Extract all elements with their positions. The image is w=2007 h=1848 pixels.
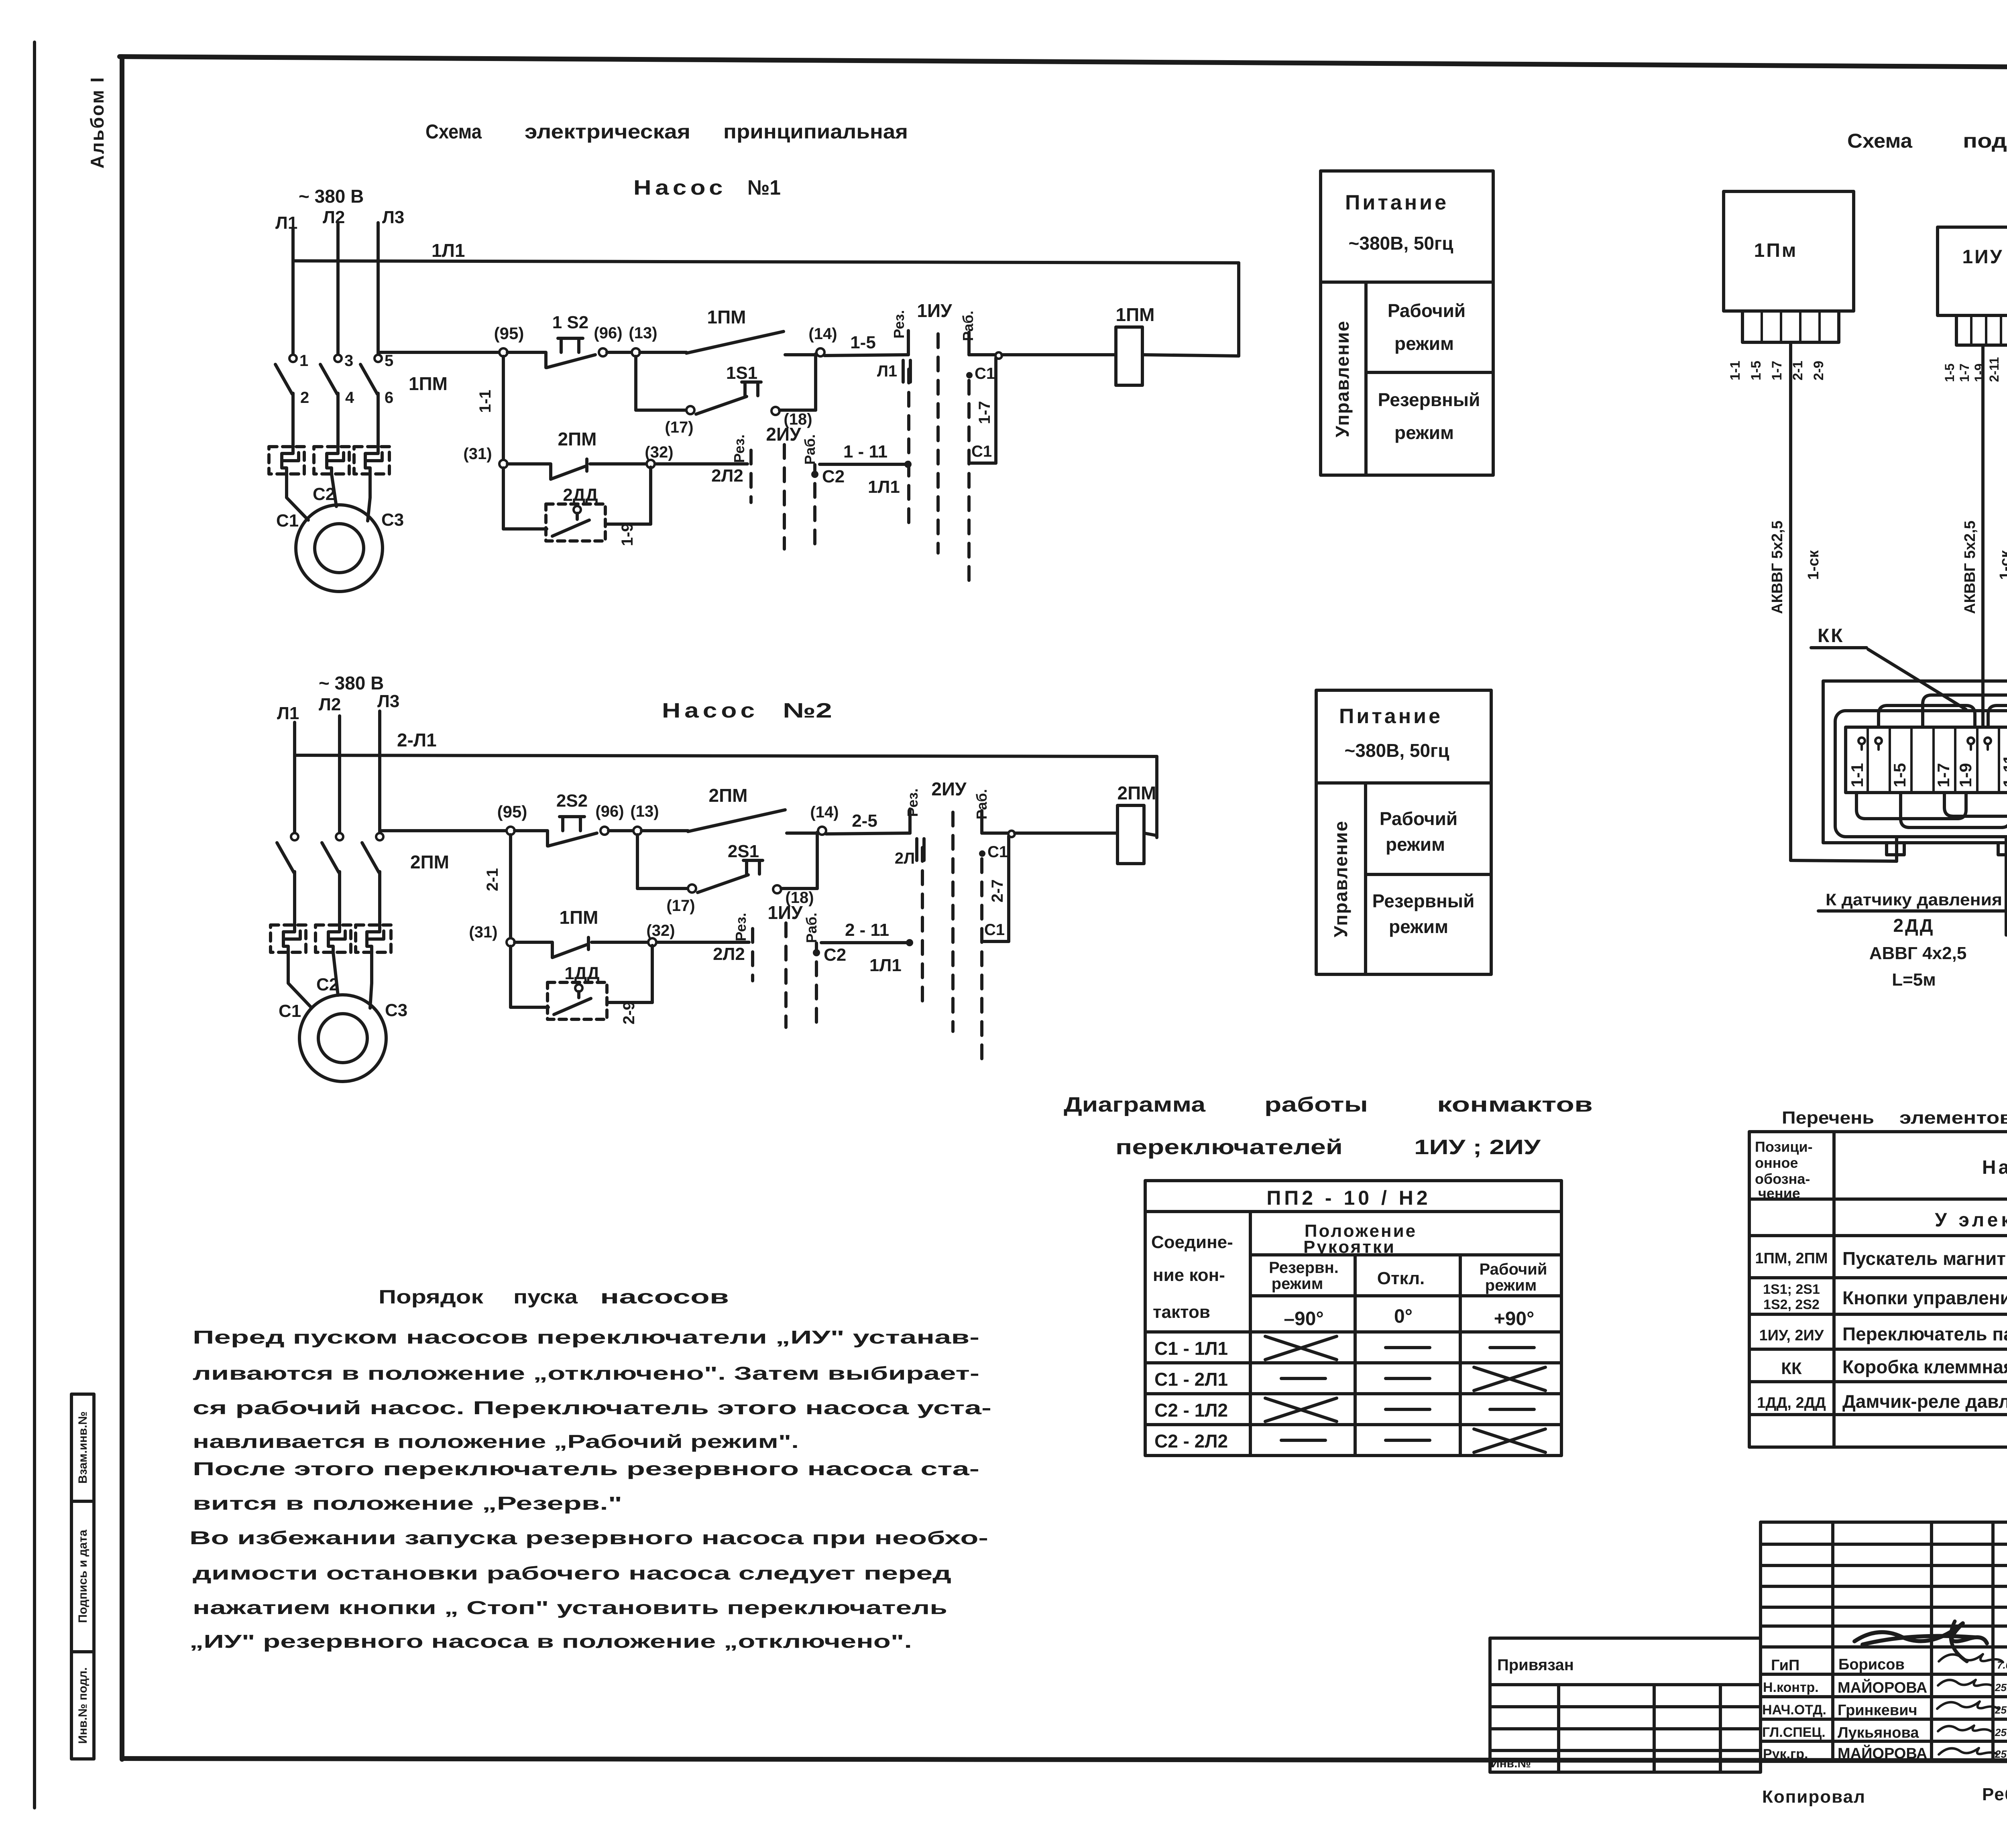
svg-text:1ПМ, 2ПМ: 1ПМ, 2ПМ bbox=[1755, 1250, 1828, 1267]
svg-text:1-1: 1-1 bbox=[1728, 361, 1743, 380]
svg-text:1-5: 1-5 bbox=[1942, 364, 1957, 382]
svg-text:чение: чение bbox=[1758, 1185, 1800, 1202]
svg-text:навливается в положение „Ра: навливается в положение „Рабочий режим". bbox=[193, 1431, 799, 1452]
svg-text:Перечень: Перечень bbox=[1782, 1108, 1874, 1128]
svg-text:1ИУ: 1ИУ bbox=[917, 300, 953, 321]
svg-text:2-Л1: 2-Л1 bbox=[397, 730, 437, 750]
svg-text:конмактов: конмактов bbox=[1437, 1093, 1593, 1116]
svg-text:С1: С1 bbox=[984, 921, 1005, 939]
svg-text:1ПМ: 1ПМ bbox=[1116, 304, 1155, 325]
svg-text:режим: режим bbox=[1386, 834, 1445, 855]
svg-text:Раб.: Раб. bbox=[802, 434, 818, 465]
svg-text:0°: 0° bbox=[1394, 1306, 1413, 1327]
svg-text:Инв.№ подл.: Инв.№ подл. bbox=[76, 1667, 90, 1744]
svg-text:Диаграмма: Диаграмма bbox=[1064, 1093, 1206, 1116]
svg-text:2 - 11: 2 - 11 bbox=[845, 920, 889, 940]
svg-text:Рез.: Рез. bbox=[733, 913, 749, 941]
svg-text:ся рабочий насос. Переключа: ся рабочий насос. Переключатель этого на… bbox=[193, 1397, 991, 1418]
svg-text:3: 3 bbox=[344, 352, 353, 370]
svg-text:тактов: тактов bbox=[1153, 1302, 1210, 1322]
svg-text:(95): (95) bbox=[497, 802, 527, 821]
svg-text:Резервн.: Резервн. bbox=[1269, 1259, 1339, 1277]
svg-text:пуска: пуска bbox=[513, 1287, 578, 1308]
svg-text:ГиП: ГиП bbox=[1771, 1657, 1799, 1674]
svg-text:1-1: 1-1 bbox=[476, 390, 494, 413]
svg-text:~ 380 В: ~ 380 В bbox=[319, 673, 384, 693]
svg-text:+90°: +90° bbox=[1494, 1308, 1535, 1330]
svg-text:К датчику давления: К датчику давления bbox=[1826, 890, 2002, 909]
svg-text:1ИУ, 2ИУ: 1ИУ, 2ИУ bbox=[1759, 1327, 1824, 1344]
svg-text:КК: КК bbox=[1818, 625, 1844, 646]
svg-text:режим: режим bbox=[1272, 1275, 1323, 1293]
svg-text:1 - 11: 1 - 11 bbox=[843, 442, 887, 461]
svg-text:насосов: насосов bbox=[600, 1287, 729, 1308]
svg-text:Рукоятки: Рукоятки bbox=[1303, 1237, 1396, 1257]
svg-text:1S2, 2S2: 1S2, 2S2 bbox=[1763, 1297, 1820, 1312]
svg-text:1-7: 1-7 bbox=[976, 401, 993, 424]
svg-text:Реброва: Реброва bbox=[1982, 1785, 2007, 1804]
svg-text:25.5.86: 25.5.86 bbox=[1995, 1704, 2007, 1716]
svg-text:(32): (32) bbox=[645, 443, 673, 461]
svg-text:L=5м: L=5м bbox=[1892, 970, 1936, 990]
svg-text:ние кон-: ние кон- bbox=[1153, 1265, 1225, 1285]
svg-text:Л1: Л1 bbox=[877, 362, 897, 380]
svg-text:1-ск: 1-ск bbox=[1997, 550, 2007, 580]
svg-text:АВВГ 4х2,5: АВВГ 4х2,5 bbox=[1869, 943, 1967, 963]
svg-text:АКВВГ 5х2,5: АКВВГ 5х2,5 bbox=[1769, 520, 1786, 614]
svg-text:(31): (31) bbox=[469, 923, 497, 941]
svg-text:После этого переключатель р: После этого переключатель резервного нас… bbox=[193, 1458, 979, 1479]
svg-text:Н.контр.: Н.контр. bbox=[1763, 1680, 1819, 1695]
svg-text:1 S2: 1 S2 bbox=[552, 313, 589, 332]
svg-text:2Л2: 2Л2 bbox=[713, 944, 745, 964]
svg-text:Коробка клеммная У615: Коробка клеммная У615 АУ2 bbox=[1842, 1356, 2007, 1377]
svg-text:1Л1: 1Л1 bbox=[432, 240, 465, 261]
svg-text:Л3: Л3 bbox=[382, 207, 404, 227]
svg-text:1-11: 1-11 bbox=[2000, 754, 2007, 787]
svg-text:25.03.86: 25.03.86 bbox=[1995, 1681, 2007, 1693]
svg-text:Гринкевич: Гринкевич bbox=[1838, 1702, 1917, 1719]
svg-text:1Л1: 1Л1 bbox=[869, 956, 902, 975]
svg-text:Резервный: Резервный bbox=[1378, 389, 1480, 410]
svg-text:1-1: 1-1 bbox=[1848, 763, 1867, 787]
svg-text:Питание: Питание bbox=[1345, 191, 1449, 214]
svg-text:Во избежании запуска резерв: Во избежании запуска резервного насоса п… bbox=[189, 1527, 988, 1548]
svg-text:Рез.: Рез. bbox=[891, 310, 907, 338]
svg-text:Рабочий: Рабочий bbox=[1480, 1260, 1547, 1278]
svg-text:Насос: Насос bbox=[662, 699, 759, 722]
svg-text:Перед пуском насосов перекл: Перед пуском насосов переключатели „ИУ" … bbox=[193, 1327, 979, 1348]
svg-text:Пускатель магнитный ПМЛ-12: Пускатель магнитный ПМЛ-122002 bbox=[1842, 1248, 2007, 1269]
svg-text:Кнопки управления: Кнопки управления bbox=[1842, 1287, 2007, 1308]
svg-text:АКВВГ 5х2,5: АКВВГ 5х2,5 bbox=[1962, 520, 1979, 614]
svg-text:переключателей: переключателей bbox=[1115, 1136, 1343, 1159]
svg-text:(13): (13) bbox=[630, 803, 659, 820]
svg-text:(17): (17) bbox=[665, 419, 693, 436]
svg-text:Питание: Питание bbox=[1339, 705, 1443, 728]
svg-text:№1: №1 bbox=[747, 176, 781, 199]
svg-text:Копировал: Копировал bbox=[1762, 1787, 1866, 1807]
svg-text:(14): (14) bbox=[810, 803, 839, 821]
svg-text:1Л1: 1Л1 bbox=[868, 477, 900, 497]
svg-text:Наименование: Наименование bbox=[1982, 1157, 2007, 1178]
svg-text:1-7: 1-7 bbox=[1934, 763, 1953, 787]
svg-text:Откл.: Откл. bbox=[1377, 1269, 1425, 1288]
svg-text:С1: С1 bbox=[987, 843, 1008, 861]
svg-text:Подпись и дата: Подпись и дата bbox=[76, 1529, 90, 1623]
svg-text:2-11: 2-11 bbox=[1987, 357, 2001, 382]
svg-text:6: 6 bbox=[385, 389, 393, 407]
svg-text:(17): (17) bbox=[666, 897, 695, 915]
svg-text:1ПМ: 1ПМ bbox=[409, 373, 448, 394]
svg-text:1-5: 1-5 bbox=[1890, 763, 1909, 787]
svg-text:1-9: 1-9 bbox=[619, 523, 636, 546]
svg-text:Насос: Насос bbox=[633, 176, 727, 199]
svg-text:–90°: –90° bbox=[1284, 1308, 1323, 1330]
svg-text:2ПМ: 2ПМ bbox=[1117, 783, 1156, 803]
svg-text:(13): (13) bbox=[629, 324, 657, 342]
svg-text:Привязан: Привязан bbox=[1497, 1656, 1574, 1674]
svg-text:принципиальная: принципиальная bbox=[723, 120, 908, 143]
svg-text:режим: режим bbox=[1389, 916, 1448, 937]
svg-text:2ИУ: 2ИУ bbox=[931, 779, 967, 799]
svg-text:Альбом I: Альбом I bbox=[87, 76, 108, 169]
svg-text:работы: работы bbox=[1264, 1093, 1368, 1116]
svg-text:2ПМ: 2ПМ bbox=[558, 429, 597, 449]
svg-text:вится в положение „Резерв.": вится в положение „Резерв." bbox=[193, 1493, 622, 1514]
svg-text:(31): (31) bbox=[463, 445, 492, 463]
svg-text:обозна-: обозна- bbox=[1755, 1171, 1810, 1187]
svg-text:1ИУ ; 2ИУ: 1ИУ ; 2ИУ bbox=[1414, 1136, 1541, 1159]
svg-text:~380В, 50гц: ~380В, 50гц bbox=[1345, 740, 1449, 761]
svg-text:Взам.инв.№: Взам.инв.№ bbox=[76, 1411, 90, 1484]
svg-text:2Л: 2Л bbox=[895, 850, 915, 867]
svg-text:Порядок: Порядок bbox=[379, 1287, 484, 1308]
svg-text:С1: С1 bbox=[279, 1001, 301, 1021]
svg-text:Инв.№: Инв.№ bbox=[1491, 1757, 1531, 1770]
svg-text:4: 4 bbox=[345, 389, 354, 407]
svg-text:Резервный: Резервный bbox=[1372, 890, 1475, 911]
svg-text:1Пм: 1Пм bbox=[1754, 240, 1798, 261]
svg-text:1-9: 1-9 bbox=[1956, 763, 1975, 787]
svg-text:Управление: Управление bbox=[1330, 820, 1351, 937]
svg-text:Управление: Управление bbox=[1332, 320, 1353, 437]
svg-text:Л1: Л1 bbox=[277, 703, 299, 723]
svg-text:Раб.: Раб. bbox=[803, 913, 820, 943]
svg-text:2ПМ: 2ПМ bbox=[709, 785, 748, 806]
svg-text:~ 380 В: ~ 380 В bbox=[299, 186, 364, 207]
svg-text:МАЙОРОВА: МАЙОРОВА bbox=[1838, 1678, 1927, 1696]
svg-text:С2: С2 bbox=[316, 975, 339, 994]
svg-text:2ДД: 2ДД bbox=[1893, 915, 1934, 936]
svg-text:ГЛ.СПЕЦ.: ГЛ.СПЕЦ. bbox=[1762, 1725, 1826, 1740]
svg-text:С2: С2 bbox=[822, 467, 845, 486]
svg-text:С1 - 2Л1: С1 - 2Л1 bbox=[1154, 1369, 1228, 1390]
svg-text:С1: С1 bbox=[975, 365, 995, 382]
svg-text:онное: онное bbox=[1755, 1155, 1798, 1171]
svg-text:25.03.86: 25.03.86 bbox=[1995, 1726, 2007, 1738]
svg-text:1-ск: 1-ск bbox=[1805, 550, 1822, 580]
svg-text:1-5: 1-5 bbox=[1748, 361, 1764, 380]
svg-text:(32): (32) bbox=[646, 922, 675, 939]
svg-text:~380В, 50гц: ~380В, 50гц bbox=[1349, 233, 1453, 254]
svg-text:НАЧ.ОТД.: НАЧ.ОТД. bbox=[1762, 1702, 1826, 1718]
svg-text:Дамчик-реле давления: Дамчик-реле давления bbox=[1842, 1391, 2007, 1412]
svg-text:режим: режим bbox=[1394, 422, 1454, 443]
svg-text:Рабочий: Рабочий bbox=[1388, 300, 1466, 321]
svg-text:КК: КК bbox=[1781, 1359, 1802, 1378]
svg-text:(14): (14) bbox=[808, 325, 837, 343]
svg-text:Переключатель пакетный ПП2: Переключатель пакетный ПП2-10 / Н2 bbox=[1842, 1323, 2007, 1344]
svg-text:5: 5 bbox=[385, 352, 393, 370]
svg-text:1ПМ: 1ПМ bbox=[560, 907, 598, 928]
svg-text:2-5: 2-5 bbox=[852, 811, 877, 831]
svg-text:1S1: 1S1 bbox=[726, 363, 757, 383]
svg-text:1-7: 1-7 bbox=[1957, 364, 1972, 382]
svg-text:2ИУ: 2ИУ bbox=[766, 424, 802, 445]
svg-text:1ИУ: 1ИУ bbox=[1962, 246, 2003, 268]
svg-text:Рез.: Рез. bbox=[731, 434, 747, 463]
svg-text:1-5: 1-5 bbox=[850, 333, 876, 352]
svg-text:2S2: 2S2 bbox=[556, 791, 588, 811]
svg-text:режим: режим bbox=[1394, 333, 1454, 354]
svg-text:1-7: 1-7 bbox=[1769, 361, 1785, 380]
svg-text:1: 1 bbox=[299, 352, 308, 370]
svg-text:2-7: 2-7 bbox=[989, 879, 1006, 903]
svg-text:С2: С2 bbox=[824, 945, 846, 965]
svg-text:Рез.: Рез. bbox=[904, 788, 921, 817]
svg-text:№2: №2 bbox=[783, 699, 832, 722]
svg-text:2-9: 2-9 bbox=[1811, 361, 1826, 380]
svg-text:подключения: подключения bbox=[1963, 130, 2007, 152]
svg-text:(96): (96) bbox=[595, 803, 624, 820]
svg-text:Рук.гр.: Рук.гр. bbox=[1763, 1746, 1808, 1762]
svg-text:МАЙОРОВА: МАЙОРОВА bbox=[1838, 1744, 1927, 1762]
svg-text:элементов: элементов bbox=[1899, 1108, 2007, 1128]
svg-text:2ПМ: 2ПМ bbox=[410, 852, 449, 872]
svg-text:димости остановки рабочего: димости остановки рабочего насоса следуе… bbox=[193, 1563, 951, 1584]
svg-text:С1: С1 bbox=[971, 443, 992, 460]
svg-text:Схема: Схема bbox=[1847, 130, 1913, 152]
svg-text:С3: С3 bbox=[385, 1000, 407, 1020]
svg-text:2ДД: 2ДД bbox=[563, 485, 598, 505]
svg-text:С1: С1 bbox=[276, 511, 299, 531]
svg-text:электрическая: электрическая bbox=[525, 120, 690, 143]
svg-text:Рабочий: Рабочий bbox=[1380, 808, 1457, 829]
svg-text:Л2: Л2 bbox=[319, 695, 341, 714]
svg-text:1ИУ: 1ИУ bbox=[767, 902, 803, 923]
svg-text:2: 2 bbox=[300, 389, 309, 407]
svg-text:нажатием кнопки „ Стоп" уст: нажатием кнопки „ Стоп" установить перек… bbox=[193, 1597, 947, 1618]
svg-text:Борисов: Борисов bbox=[1838, 1656, 1905, 1673]
svg-text:У электродвигателя: У электродвигателя bbox=[1935, 1210, 2007, 1231]
svg-text:С2 - 1Л2: С2 - 1Л2 bbox=[1154, 1400, 1228, 1421]
svg-text:ливаются в положение „отключ: ливаются в положение „отключено". Затем … bbox=[193, 1363, 979, 1384]
svg-text:1S1; 2S1: 1S1; 2S1 bbox=[1763, 1282, 1820, 1297]
svg-text:С2 - 2Л2: С2 - 2Л2 bbox=[1154, 1431, 1228, 1452]
svg-text:Л2: Л2 bbox=[323, 207, 345, 227]
svg-text:„ИУ" резервного насоса в п: „ИУ" резервного насоса в положение „откл… bbox=[189, 1631, 912, 1652]
svg-text:Л3: Л3 bbox=[377, 691, 399, 711]
svg-text:2Л2: 2Л2 bbox=[711, 466, 743, 486]
svg-text:2-1: 2-1 bbox=[484, 868, 501, 891]
svg-text:С1 - 1Л1: С1 - 1Л1 bbox=[1154, 1338, 1228, 1359]
svg-text:1ДД, 2ДД: 1ДД, 2ДД bbox=[1757, 1395, 1826, 1411]
svg-text:2S1: 2S1 bbox=[728, 842, 759, 861]
svg-text:2-1: 2-1 bbox=[1790, 361, 1805, 380]
svg-text:(96): (96) bbox=[594, 324, 622, 342]
svg-text:2-9: 2-9 bbox=[620, 1001, 638, 1025]
svg-text:ПП2 - 10 / Н2: ПП2 - 10 / Н2 bbox=[1266, 1187, 1431, 1209]
svg-text:Позици-: Позици- bbox=[1755, 1138, 1813, 1155]
svg-text:С3: С3 bbox=[381, 510, 404, 530]
svg-text:(95): (95) bbox=[494, 324, 524, 343]
svg-text:режим: режим bbox=[1485, 1277, 1537, 1294]
svg-text:С2: С2 bbox=[313, 484, 335, 504]
svg-text:1ПМ: 1ПМ bbox=[707, 307, 746, 327]
svg-text:Схема: Схема bbox=[425, 120, 482, 143]
svg-text:Лукьянова: Лукьянова bbox=[1838, 1724, 1919, 1741]
svg-text:Соедине-: Соедине- bbox=[1151, 1232, 1233, 1252]
svg-text:1ДД: 1ДД bbox=[564, 964, 599, 983]
